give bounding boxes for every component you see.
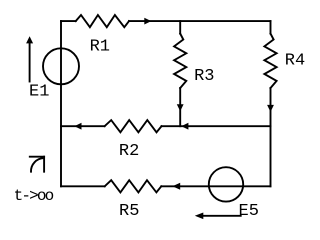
svg-text:R4: R4: [285, 51, 305, 70]
svg-text:E5: E5: [239, 202, 259, 221]
svg-text:R3: R3: [194, 67, 214, 86]
resistor R5: [105, 180, 162, 192]
wire left vertical branch: [60, 21, 62, 186]
svg-text:R1: R1: [90, 37, 110, 56]
wire R3 branch lower: [179, 88, 181, 126]
arrowhead E5 left: [195, 213, 204, 220]
wire top from left corner to R1: [61, 20, 76, 22]
arrowhead current left on middle wire: [74, 123, 81, 130]
arrowhead current left on bottom wire: [172, 183, 180, 190]
voltage source E5: [209, 167, 243, 201]
arrow E5 direction shaft: [203, 215, 241, 217]
arrowhead current right on top wire: [144, 18, 151, 25]
voltage source E1: [43, 48, 79, 84]
wire bottom from R5 to right: [161, 185, 270, 187]
t->oo curved arrow arc: [31, 158, 44, 172]
resistor R4: [264, 34, 276, 88]
t->oo arrowhead barb vertical: [43, 157, 45, 172]
wire R3 branch upper: [179, 21, 181, 33]
wire bottom from left to R5: [61, 185, 105, 187]
svg-text:E1: E1: [29, 82, 49, 101]
arrowhead current left at R3 junction: [181, 123, 188, 130]
resistor R1: [76, 15, 129, 27]
svg-text:R5: R5: [119, 202, 139, 221]
wire right vertical upper: [270, 21, 272, 33]
arrowhead current down on R3 branch: [177, 104, 184, 111]
svg-text:R2: R2: [119, 142, 139, 161]
arrowhead E1 up: [26, 36, 33, 43]
resistor R2: [105, 120, 162, 132]
wire top from R1 to top-right corner: [129, 20, 271, 22]
resistor R3: [174, 34, 186, 88]
wire middle from left to R2: [61, 125, 105, 127]
arrowhead current down on R4 branch: [267, 105, 274, 112]
svg-text:t->oo: t->oo: [14, 187, 54, 205]
wire right vertical lower: [270, 88, 272, 186]
arrow E1 direction shaft: [29, 43, 31, 82]
wire middle from R2 to right: [162, 125, 271, 127]
t->oo arrowhead barb horizontal: [30, 156, 44, 158]
